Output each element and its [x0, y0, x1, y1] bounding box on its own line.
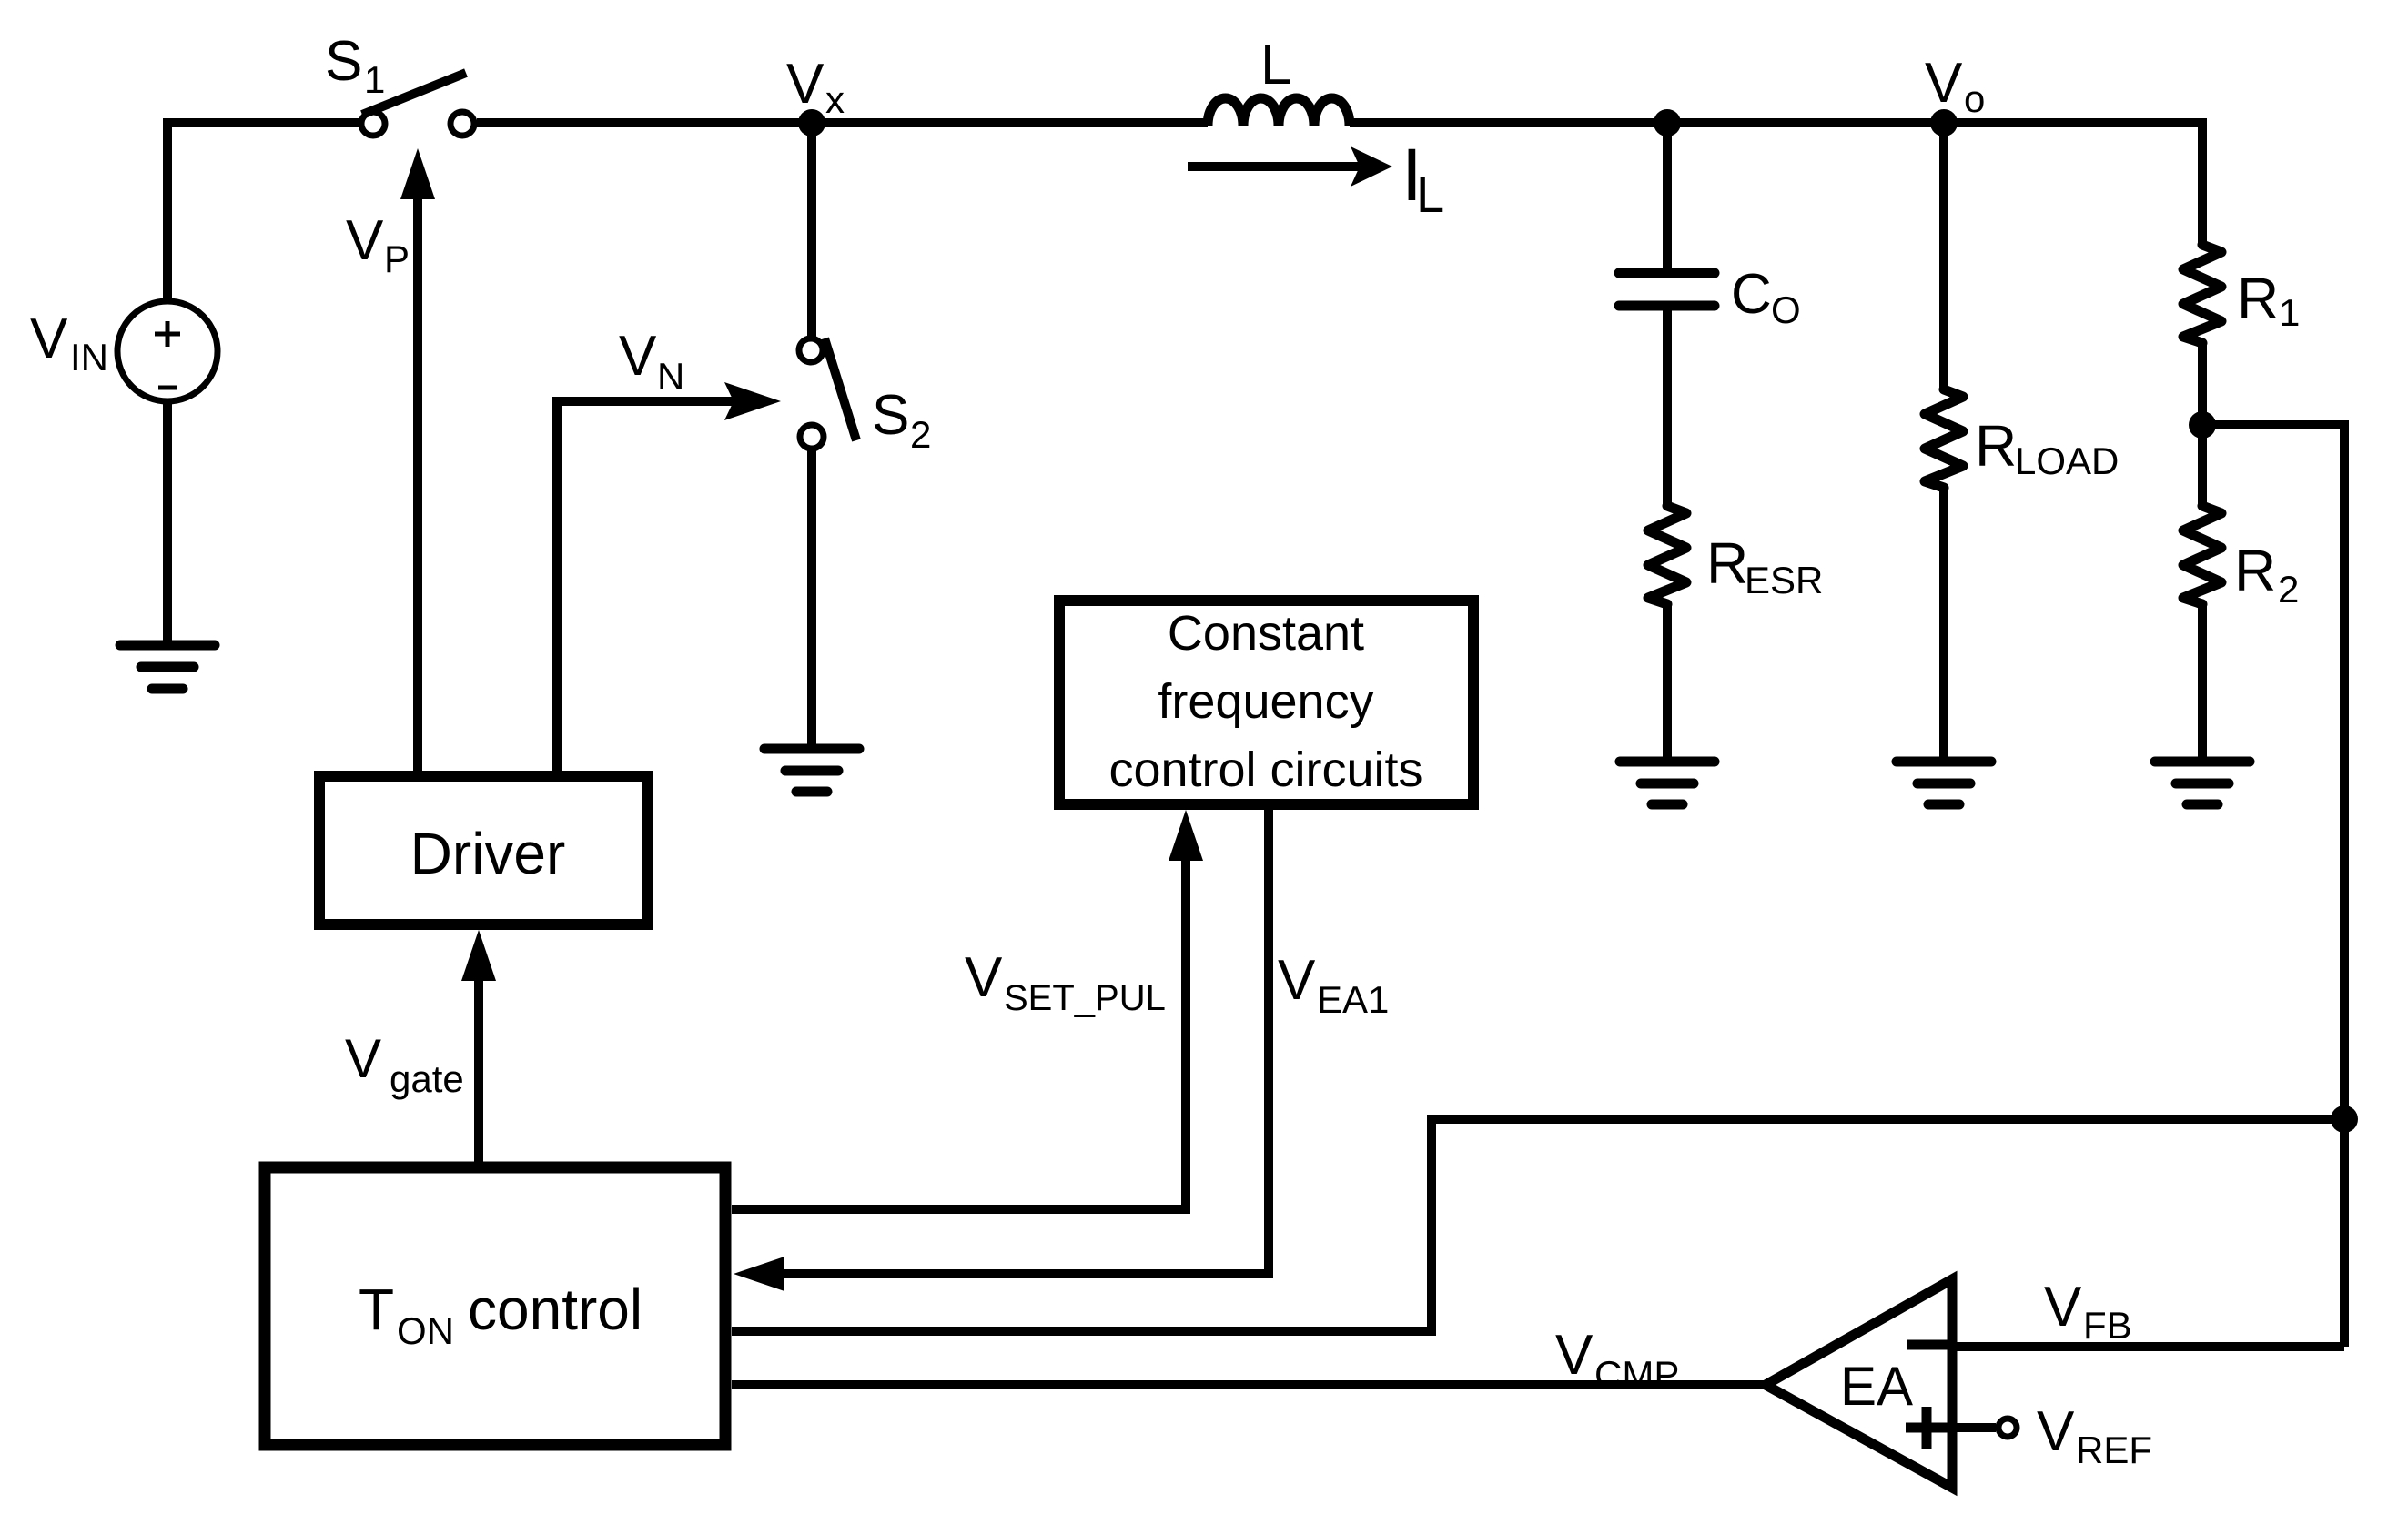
ground (below VIN) — [120, 645, 215, 689]
op-amp EA — [1766, 1279, 1952, 1488]
svg-text:gate: gate — [390, 1057, 464, 1100]
EA non-inverting input plus — [1906, 1407, 1948, 1449]
svg-text:ON: ON — [397, 1309, 454, 1352]
terminal VREF — [1952, 1419, 2017, 1437]
svg-text:L: L — [1260, 34, 1291, 96]
node Vx — [798, 109, 825, 136]
svg-text:S: S — [325, 30, 362, 93]
svg-text:S: S — [872, 384, 909, 447]
svg-text:V: V — [2037, 1400, 2075, 1463]
svg-text:V: V — [345, 1028, 381, 1089]
node R1-R2 junction — [2189, 411, 2216, 439]
svg-text:V: V — [1555, 1324, 1594, 1387]
svg-text:O: O — [1771, 288, 1801, 331]
driver box U1 — [319, 776, 648, 924]
svg-text:REF: REF — [2076, 1429, 2152, 1471]
svg-text:R: R — [1975, 413, 2017, 479]
switch S1 — [361, 73, 474, 136]
wire R2 to ground — [2198, 604, 2207, 762]
wire Vo to RLOAD — [1939, 123, 1948, 389]
resistor R1 — [2183, 245, 2221, 343]
svg-text:V: V — [786, 53, 825, 116]
svg-text:Constant: Constant — [1168, 606, 1364, 661]
resistor RESR — [1648, 506, 1686, 604]
svg-text:FB: FB — [2083, 1304, 2132, 1347]
inductor L — [1208, 98, 1350, 126]
svg-text:1: 1 — [364, 58, 385, 101]
svg-text:V: V — [1278, 949, 1316, 1012]
svg-text:EA1: EA1 — [1317, 978, 1389, 1021]
resistor RLOAD — [1925, 389, 1963, 488]
wire S1 to inductor (through Vx) — [477, 118, 1208, 127]
wire Vx to S2 — [807, 123, 816, 338]
svg-text:control: control — [468, 1277, 642, 1342]
svg-text:T: T — [359, 1277, 394, 1342]
svg-text:V: V — [30, 308, 68, 370]
wire CO to RESR — [1663, 310, 1672, 506]
svg-text:SET_PUL: SET_PUL — [1004, 978, 1166, 1018]
wire VFB feedback to TON control — [732, 1119, 2344, 1331]
constant frequency control circuits box — [1059, 601, 1473, 804]
svg-text:IN: IN — [70, 336, 108, 379]
svg-text:frequency: frequency — [1158, 674, 1373, 729]
wire node to feedback line — [2202, 425, 2344, 1347]
svg-text:L: L — [1416, 166, 1444, 223]
svg-text:1: 1 — [2279, 291, 2300, 334]
arrow VSET_PUL (TON control to constant frequency box) — [732, 810, 1203, 1209]
arrow VN (into S2) — [557, 382, 781, 771]
EA inverting input minus — [1907, 1340, 1948, 1350]
svg-text:V: V — [346, 209, 384, 272]
node VFB junction — [2331, 1106, 2358, 1133]
wire top rail from VIN to S1 — [167, 123, 360, 302]
wire R1-R2 node to R2 — [2198, 425, 2207, 506]
wire RESR to ground — [1663, 604, 1672, 762]
svg-text:R: R — [2237, 266, 2279, 331]
svg-text:CMP: CMP — [1594, 1353, 1679, 1396]
wire RLOAD to ground — [1939, 488, 1948, 762]
ground (below S2) — [764, 749, 859, 792]
capacitor CO — [1619, 273, 1715, 306]
arrow VEA1 (constant frequency box to TON control) — [734, 810, 1269, 1291]
node CO junction — [1654, 109, 1681, 136]
svg-text:control circuits: control circuits — [1108, 742, 1422, 797]
svg-text:LOAD: LOAD — [2015, 439, 2119, 482]
ground (below RLOAD) — [1897, 762, 1991, 804]
svg-text:Driver: Driver — [410, 821, 566, 886]
svg-text:P: P — [384, 237, 410, 280]
svg-text:EA: EA — [1840, 1356, 1913, 1417]
svg-text:V: V — [965, 946, 1003, 1009]
arrow VP (into S1) — [400, 148, 435, 771]
switch S2 — [799, 338, 856, 449]
svg-text:R: R — [1706, 530, 1748, 596]
ground (below R2) — [2155, 762, 2250, 804]
resistor R2 — [2183, 506, 2221, 604]
wire inductor to R1 corner — [1350, 123, 2202, 246]
svg-text:C: C — [1731, 263, 1772, 326]
svg-text:x: x — [825, 78, 845, 121]
arrow IL — [1188, 146, 1392, 187]
svg-text:R: R — [2234, 538, 2276, 603]
svg-text:2: 2 — [2278, 568, 2299, 611]
svg-text:V: V — [2044, 1276, 2082, 1338]
wire VCMP (EA output to TON control) — [732, 1380, 1766, 1389]
wire Vo node to capacitor CO — [1663, 123, 1672, 268]
wire R1 to node — [2198, 343, 2207, 425]
TON control box — [265, 1167, 725, 1445]
ground (below RESR) — [1620, 762, 1715, 804]
arrow Vgate (into Driver) — [461, 930, 496, 1162]
voltage source VIN — [117, 301, 218, 401]
wire VIN to ground — [163, 401, 172, 645]
node Vo — [1930, 109, 1958, 136]
wire S2 to ground — [807, 449, 816, 749]
svg-text:V: V — [619, 325, 657, 388]
svg-text:N: N — [657, 355, 684, 398]
svg-text:o: o — [1964, 77, 1985, 120]
svg-text:V: V — [1925, 52, 1963, 115]
wire VFB into EA inverting input — [1952, 1342, 2344, 1351]
svg-text:2: 2 — [910, 413, 931, 456]
svg-text:ESR: ESR — [1745, 559, 1823, 601]
